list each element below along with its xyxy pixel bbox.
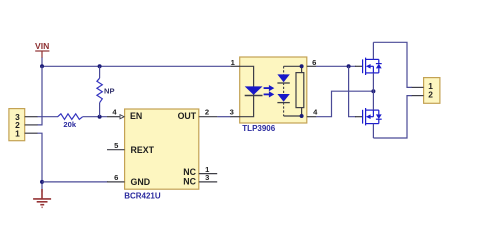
wire gate branch down to lower FET (349, 66, 356, 116)
wire connector pin1 to ground (37, 133, 42, 192)
node common source (371, 89, 375, 93)
light arrow 2 (264, 91, 275, 97)
svg-text:1: 1 (15, 128, 20, 138)
node NP top (98, 64, 102, 68)
node VIN rail left (40, 64, 44, 68)
wire gate drive from TLP pin 6 (316, 65, 356, 67)
pin 2 OUT stub (199, 116, 218, 118)
photodiode chain wiring (284, 65, 302, 67)
resistor NP (97, 66, 115, 116)
svg-text:GND: GND (131, 177, 151, 187)
LED D1 (245, 86, 263, 95)
pin 5 REXT stub (107, 149, 125, 151)
wire VIN stub down (41, 58, 43, 67)
svg-text:20k: 20k (63, 120, 76, 129)
node resistor bottom (300, 114, 304, 118)
pin 2 stub (412, 95, 424, 97)
connector J2 (2-pin) (412, 78, 440, 104)
pin 4 EN stub (107, 116, 120, 118)
wire VIN top rail (42, 65, 230, 67)
svg-text:3: 3 (205, 173, 209, 182)
svg-text:2: 2 (428, 89, 433, 99)
optocoupler TLP3906 (230, 57, 318, 133)
svg-text:6: 6 (114, 173, 118, 182)
body diode D (376, 114, 382, 119)
light arrow 1 (264, 85, 275, 91)
substrate arrow (366, 114, 371, 119)
net label VIN (35, 41, 49, 58)
pin 6 GND stub (107, 181, 125, 183)
transistor Q2 (lower MOSFET) (355, 108, 382, 125)
node gate branch (347, 64, 351, 68)
pin 6 stub (307, 65, 317, 67)
wire source Q2 up to node (372, 91, 374, 110)
pin 3 NC stub (199, 181, 217, 183)
svg-text:2: 2 (205, 107, 209, 116)
body diode D (376, 64, 382, 69)
internal resistor (301, 66, 303, 72)
gate pin lead (355, 65, 362, 67)
svg-text:NP: NP (104, 87, 115, 96)
pin 1 stub (230, 65, 240, 67)
pin 2 stub (25, 124, 38, 126)
LED internal wiring (240, 66, 254, 116)
wire 20k to EN pin (83, 116, 107, 118)
svg-text:REXT: REXT (131, 145, 155, 155)
svg-text:3: 3 (230, 107, 234, 116)
wire source Q1 down to node (372, 73, 374, 91)
transistor Q1 (upper MOSFET) (355, 58, 382, 75)
wire drain Q1 up (372, 42, 374, 59)
pin 3 stub (25, 116, 38, 118)
pin 1 stub (412, 86, 424, 88)
pin 4 stub (307, 116, 317, 118)
svg-text:NC: NC (183, 176, 196, 186)
node EN/NP junction (98, 115, 102, 119)
connector J1 (3-pin) (9, 109, 38, 141)
wire GND horizontal to IC (42, 181, 108, 183)
node resistor top (300, 64, 304, 68)
svg-text:EN: EN (130, 111, 142, 121)
pin 1 stub (25, 132, 38, 134)
pin 3 stub (230, 116, 240, 118)
photodiode PD2 (277, 94, 289, 102)
svg-text:TLP3906: TLP3906 (242, 124, 275, 133)
wire OUT to TLP pin 3 (217, 116, 230, 118)
resistor 20k (58, 114, 83, 129)
wire output top rail (373, 42, 412, 87)
wire VIN down to connector pin 2 (37, 66, 42, 125)
node GND junction (40, 180, 44, 184)
svg-text:OUT: OUT (178, 111, 197, 121)
pin 1 NC stub (199, 173, 217, 175)
svg-text:VIN: VIN (35, 41, 49, 51)
photodiode PD1 (277, 74, 289, 82)
ground (33, 189, 51, 207)
substrate arrow (366, 64, 371, 69)
IC BCR421U (107, 107, 217, 200)
gate pin lead (355, 116, 362, 118)
wire EN net from connector pin 3 (37, 116, 58, 118)
wire drain Q2 down (372, 124, 374, 138)
svg-text:6: 6 (312, 58, 316, 67)
wire output bottom rail (373, 96, 412, 138)
svg-text:BCR421U: BCR421U (124, 191, 161, 200)
wire TLP pin 4 to common source (316, 91, 373, 117)
